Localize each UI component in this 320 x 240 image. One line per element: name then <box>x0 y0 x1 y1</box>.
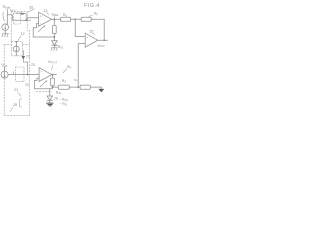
dashed box 12 <box>14 13 21 25</box>
output node <box>52 74 57 76</box>
node VREF <box>52 18 57 20</box>
chain wire <box>52 86 58 88</box>
svg-text:VOUT: VOUT <box>97 44 105 48</box>
op-amp 13 <box>39 12 52 26</box>
ground <box>51 48 58 51</box>
resistor Rc <box>80 85 90 89</box>
dashed segment near 25 <box>36 91 51 93</box>
wire below I3 <box>15 52 17 56</box>
svg-text:26: 26 <box>54 96 58 100</box>
svg-text:Rb: Rb <box>94 12 98 16</box>
svg-text:22: 22 <box>26 54 30 58</box>
op-amp 15 <box>85 33 98 47</box>
svg-text:+: + <box>40 70 42 74</box>
svg-text:+: + <box>40 15 42 19</box>
svg-text:RS: RS <box>62 79 66 83</box>
wire branch jog <box>7 15 12 20</box>
current arrow IREF <box>21 13 25 15</box>
svg-text:-: - <box>41 77 43 81</box>
leader arc from Vdda <box>3 12 5 21</box>
feedback arrow <box>38 27 43 32</box>
resistor Rs <box>58 85 69 89</box>
dashed box bottom / box2 top <box>4 44 29 46</box>
wire Vref node down <box>53 19 55 25</box>
current source I2 <box>1 71 8 78</box>
wire to Ra <box>57 18 61 20</box>
wire to op-amp 13 + input <box>27 18 38 21</box>
feedback loop wire <box>33 23 54 37</box>
svg-text:25: 25 <box>13 103 17 107</box>
wire Vdda down <box>6 10 8 25</box>
op-amp 15 - input wire <box>78 44 85 87</box>
wire <box>53 34 55 37</box>
svg-text:+: + <box>86 36 88 40</box>
svg-text:VREF: VREF <box>51 13 59 17</box>
svg-text:-: - <box>40 22 42 26</box>
svg-text:~ RX1: ~ RX1 <box>60 102 69 106</box>
svg-text:23: 23 <box>25 83 29 87</box>
wire to op-amp + <box>8 74 39 76</box>
dashed box around I3 <box>11 42 22 56</box>
current arrow down <box>22 56 26 60</box>
wire divider tap down <box>75 19 85 36</box>
svg-text:12: 12 <box>21 32 25 36</box>
dashed sub-box 22 <box>16 67 24 82</box>
wire rail through box 12 <box>12 19 27 21</box>
svg-text:RA2: RA2 <box>56 91 62 95</box>
wire above I3 <box>15 42 17 46</box>
diode D2 <box>49 89 51 96</box>
dashed box 11 left edge <box>10 11 12 41</box>
svg-text:RV: RV <box>67 65 71 69</box>
wire <box>71 18 82 20</box>
wire to ground <box>90 87 101 89</box>
svg-text:23: 23 <box>31 63 35 67</box>
wire down <box>51 75 53 79</box>
resistor Rb <box>81 17 91 21</box>
svg-text:32: 32 <box>29 6 33 10</box>
svg-text:FIG.4: FIG.4 <box>84 3 100 9</box>
svg-text:VPTAT: VPTAT <box>48 60 57 65</box>
wire <box>69 86 80 88</box>
dashed box 11 right edge <box>26 11 28 31</box>
junction dot <box>25 19 27 21</box>
op-amp 23 <box>39 68 52 82</box>
output wire Vout <box>98 39 108 41</box>
dashed box 20 bottom edge <box>4 115 29 117</box>
svg-text:RA2: RA2 <box>58 45 64 49</box>
ground filled <box>98 89 104 92</box>
current source I1 <box>2 24 9 31</box>
ground <box>2 34 9 37</box>
diode D1 <box>53 37 55 41</box>
wire stub <box>27 19 30 21</box>
wire corner right <box>91 19 104 40</box>
current source I3 <box>13 46 19 52</box>
resistor R1 vertical <box>53 26 57 34</box>
feedback arrow <box>40 82 45 87</box>
wire <box>4 31 6 34</box>
svg-text:21: 21 <box>14 88 18 92</box>
resistor Ra <box>61 17 71 21</box>
ground dark <box>47 102 53 104</box>
dashed box 20 left edge <box>3 45 5 116</box>
branch wire with arrow <box>23 51 27 75</box>
wire Vdd down <box>4 67 6 71</box>
svg-text:13: 13 <box>43 9 47 13</box>
dashed box 11 top edge <box>11 10 27 12</box>
dashed edge right lower <box>28 30 30 116</box>
svg-text:Ra: Ra <box>63 13 67 17</box>
svg-text:-: - <box>87 43 89 47</box>
wire <box>51 86 53 87</box>
resistor R2 vertical <box>51 78 55 86</box>
stub <box>13 72 15 75</box>
junction dot <box>16 41 18 43</box>
feedback loop wire <box>34 78 52 89</box>
current arrow line <box>16 14 27 21</box>
